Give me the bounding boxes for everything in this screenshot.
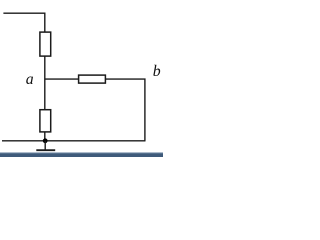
wire: node a to R2 left <box>45 78 79 80</box>
resistor R1 (top vertical) <box>40 32 51 56</box>
junction dot at bottom rail <box>43 138 48 143</box>
wire: R3 bottom to bottom rail <box>44 132 46 141</box>
wire: R2 right to corner then down to bottom rail <box>105 79 144 141</box>
taskbar strip (bottom blue bar) <box>0 152 163 153</box>
resistor R3 (bottom vertical) <box>40 110 51 132</box>
resistor R2 (horizontal) <box>79 75 106 83</box>
wire: top feed from left edge to corner, then down to R1 <box>3 13 44 32</box>
svg-text:a: a <box>26 71 34 88</box>
wire: R1 bottom through node a down to R3 top <box>44 56 46 110</box>
wire: bottom rail <box>2 140 146 142</box>
ground <box>44 141 46 150</box>
svg-text:b: b <box>153 63 161 80</box>
